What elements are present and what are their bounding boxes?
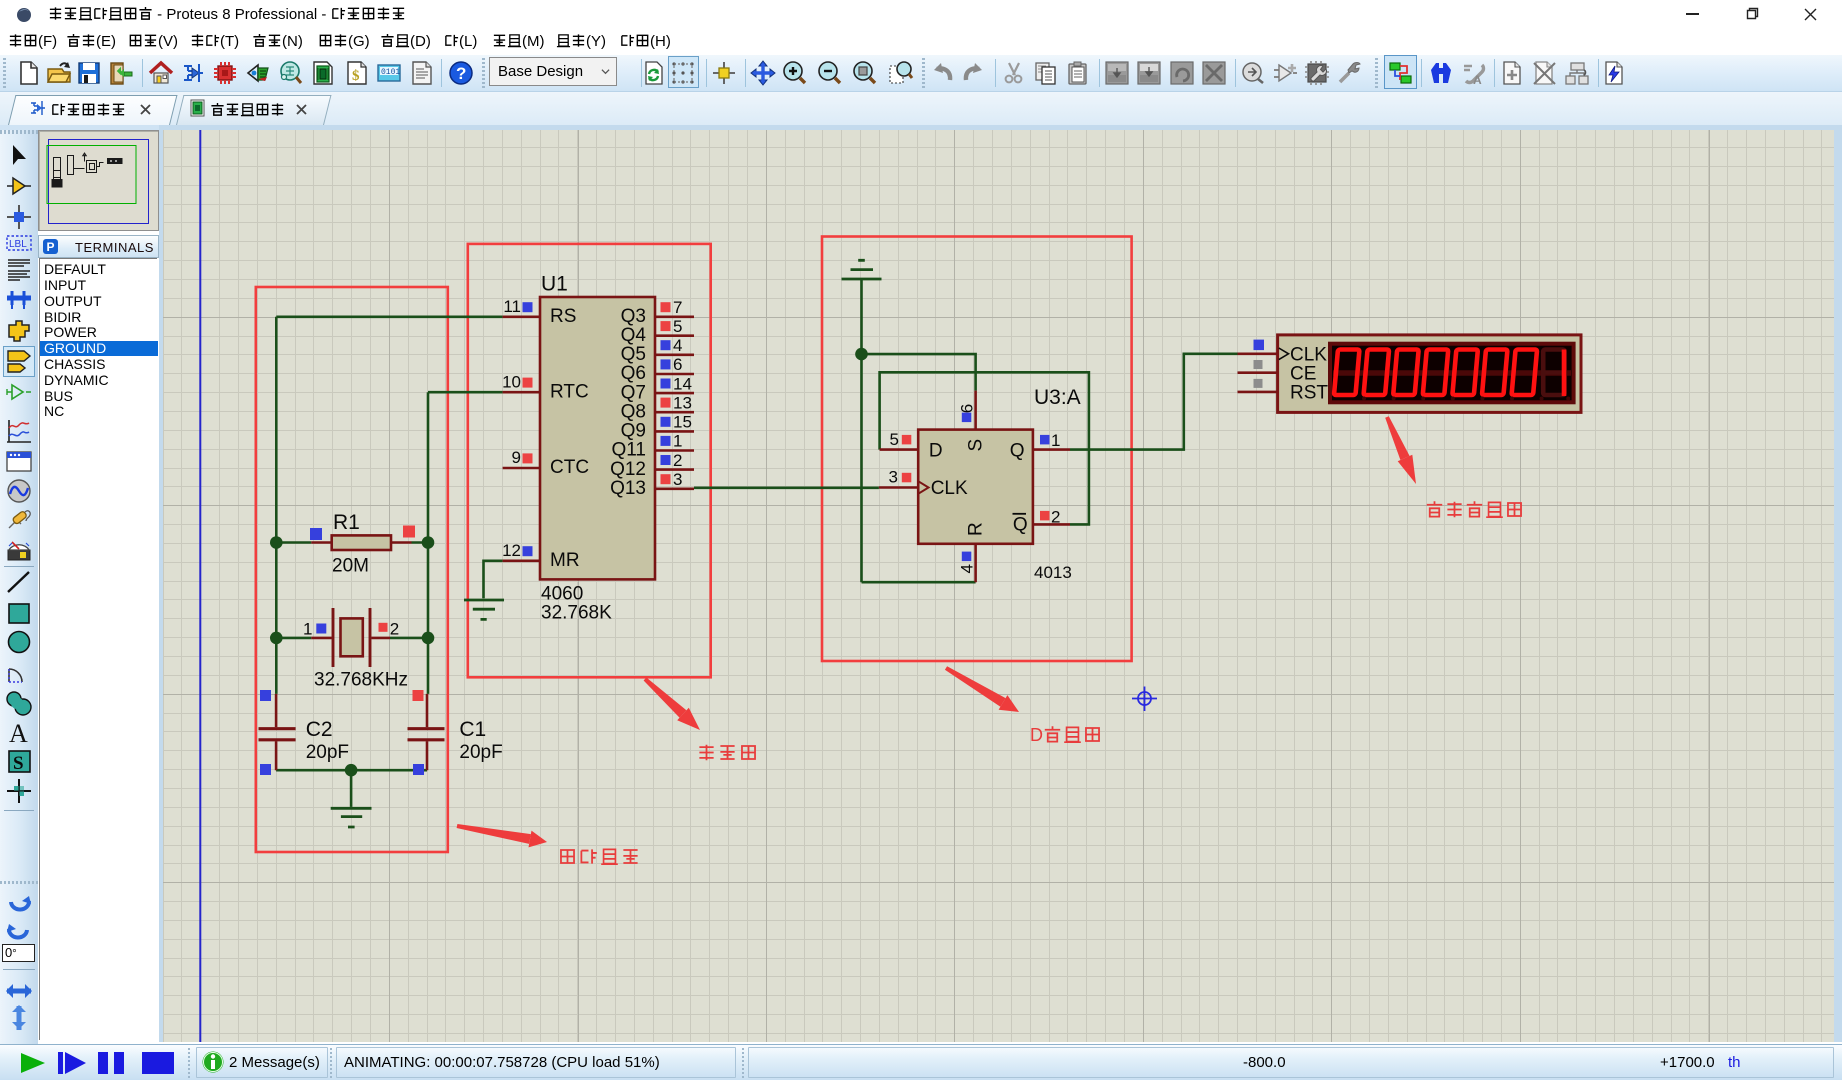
buses mode bbox=[5, 286, 33, 314]
svg-text:Q8: Q8 bbox=[621, 402, 646, 423]
svg-text:CE: CE bbox=[1290, 363, 1316, 384]
annotation arrow to crystal circuit bbox=[457, 824, 531, 844]
svg-text:4: 4 bbox=[958, 564, 977, 573]
capacitor C2 bbox=[259, 690, 350, 775]
terminals mode (selected) bbox=[5, 348, 33, 376]
svg-text:15: 15 bbox=[673, 413, 692, 432]
wire R1 left link bbox=[276, 541, 311, 544]
7-segment counter display bbox=[1238, 335, 1582, 413]
stop bbox=[142, 1052, 174, 1074]
wire ground stem G1 bbox=[350, 770, 353, 807]
svg-text:Q3: Q3 bbox=[621, 306, 646, 327]
voltage probe bbox=[5, 506, 33, 534]
crystal X1 32.768KHz bbox=[303, 608, 408, 691]
svg-text:Q5: Q5 bbox=[621, 344, 646, 365]
svg-text:32.768KHz: 32.768KHz bbox=[314, 670, 408, 691]
svg-text:13: 13 bbox=[673, 393, 692, 412]
generator mode bbox=[5, 478, 33, 506]
svg-text:3: 3 bbox=[673, 470, 682, 489]
annotation box: divider bbox=[468, 244, 711, 677]
wire right vertical (XTAL2 net) bbox=[427, 392, 430, 694]
wire crystal right link bbox=[390, 637, 428, 640]
wire D feedback loop bbox=[880, 372, 1089, 524]
ground G1 (crystal circuit) bbox=[331, 808, 372, 827]
svg-text:4060: 4060 bbox=[541, 584, 583, 605]
svg-text:1: 1 bbox=[303, 620, 312, 639]
svg-text:Q4: Q4 bbox=[621, 325, 647, 346]
label D触发器 bbox=[1030, 725, 1099, 745]
wire RS net bbox=[276, 315, 502, 318]
digit 0 x7 bbox=[1334, 350, 1537, 396]
junction node R1 left bbox=[270, 536, 283, 549]
svg-text:20pF: 20pF bbox=[459, 742, 502, 763]
svg-text:9: 9 bbox=[512, 448, 521, 467]
svg-text:A: A bbox=[1473, 73, 1482, 86]
wire crystal left link bbox=[276, 637, 311, 640]
svg-text:S: S bbox=[13, 753, 24, 774]
junction node crystal left bbox=[270, 632, 283, 645]
svg-text:C2: C2 bbox=[306, 718, 333, 741]
svg-text:2: 2 bbox=[390, 620, 399, 639]
subcircuit mode bbox=[5, 317, 33, 345]
svg-text:D: D bbox=[929, 441, 943, 462]
grid major bbox=[163, 130, 1834, 1072]
junction dot mode bbox=[5, 203, 33, 231]
ground G2 (U1 MR) bbox=[464, 600, 504, 619]
junction node cap common / ground bbox=[345, 764, 358, 777]
svg-text:2: 2 bbox=[673, 451, 682, 470]
svg-text:?: ? bbox=[456, 64, 466, 83]
2D line bbox=[5, 569, 33, 597]
view rect bbox=[47, 146, 136, 204]
2D symbol S bbox=[5, 748, 33, 776]
svg-text:3: 3 bbox=[889, 467, 898, 486]
svg-text:32.768K: 32.768K bbox=[541, 603, 612, 624]
2D box bbox=[5, 600, 33, 628]
svg-text:12: 12 bbox=[502, 541, 521, 560]
svg-text:Q11: Q11 bbox=[611, 440, 646, 461]
cursor crosshair bbox=[1132, 687, 1157, 712]
2D marker bbox=[5, 777, 33, 805]
svg-text:D: D bbox=[1030, 725, 1043, 745]
play bbox=[20, 1052, 46, 1074]
annotation box: crystal circuit bbox=[256, 287, 448, 852]
wire Q13 to CLK bbox=[694, 486, 879, 489]
pause bbox=[98, 1052, 126, 1074]
graph mode bbox=[5, 418, 33, 446]
svg-text:1: 1 bbox=[673, 432, 682, 451]
svg-text:MR: MR bbox=[550, 550, 580, 571]
label 晶振电路 bbox=[561, 849, 638, 864]
component mode bbox=[5, 173, 33, 201]
resistor R1 bbox=[310, 511, 415, 577]
svg-text:0101: 0101 bbox=[381, 68, 400, 77]
svg-text:Q12: Q12 bbox=[610, 459, 646, 480]
svg-text:S: S bbox=[966, 439, 987, 452]
svg-text:5: 5 bbox=[673, 317, 682, 336]
IC U1 4060 bbox=[502, 273, 694, 624]
svg-text:U1: U1 bbox=[541, 273, 568, 296]
mirror vertical bbox=[5, 1004, 33, 1032]
svg-text:Q13: Q13 bbox=[610, 478, 646, 499]
sheet edge (blue) bbox=[199, 130, 201, 1042]
virtual instruments bbox=[5, 536, 33, 564]
svg-text:4013: 4013 bbox=[1034, 563, 1072, 582]
svg-text:P: P bbox=[47, 240, 55, 254]
sheet rect bbox=[49, 140, 149, 224]
svg-text:Q9: Q9 bbox=[621, 421, 646, 442]
svg-text:U3:A: U3:A bbox=[1034, 386, 1081, 409]
svg-text:RS: RS bbox=[550, 306, 576, 327]
svg-text:11: 11 bbox=[503, 297, 521, 316]
svg-text:R1: R1 bbox=[333, 511, 360, 534]
wire MR to ground bbox=[484, 561, 503, 599]
rotate ccw bbox=[5, 916, 33, 944]
text script bbox=[5, 256, 33, 284]
svg-text:$: $ bbox=[352, 68, 360, 84]
wire bottom (cap common) bbox=[276, 769, 427, 772]
device pins mode bbox=[5, 379, 33, 407]
svg-text:C1: C1 bbox=[459, 718, 486, 741]
2D text A bbox=[5, 718, 33, 746]
svg-text:RST: RST bbox=[1290, 383, 1328, 404]
2D circle bbox=[5, 629, 33, 657]
wire R net bbox=[862, 581, 976, 584]
svg-text:6: 6 bbox=[673, 355, 682, 374]
IC U3:A 4013 D flip-flop bbox=[879, 386, 1081, 582]
junction node R1 right bbox=[422, 536, 435, 549]
mirror horizontal bbox=[5, 978, 33, 1006]
svg-text:CLK: CLK bbox=[931, 478, 968, 499]
step bbox=[58, 1052, 86, 1074]
svg-text:20pF: 20pF bbox=[306, 742, 349, 763]
svg-text:4: 4 bbox=[673, 336, 682, 355]
svg-text:CTC: CTC bbox=[550, 457, 589, 478]
svg-text:20M: 20M bbox=[332, 556, 369, 577]
wire left vertical (XTAL1 net) bbox=[275, 317, 278, 694]
svg-text:2: 2 bbox=[1051, 507, 1060, 526]
svg-text:Q7: Q7 bbox=[621, 382, 646, 403]
wire R1 right link bbox=[412, 541, 429, 544]
wire Q to display CLK bbox=[1070, 354, 1238, 450]
wire label LBL bbox=[5, 229, 33, 257]
svg-text:5: 5 bbox=[890, 430, 899, 449]
svg-text:6: 6 bbox=[958, 404, 977, 413]
annotation arrow to D flip-flop bbox=[945, 666, 1006, 706]
wire DFF ground vertical bbox=[860, 280, 863, 582]
capacitor C1 bbox=[408, 690, 503, 775]
annotation arrow to divider bbox=[644, 678, 687, 718]
svg-text:10: 10 bbox=[502, 372, 521, 391]
svg-text:Q6: Q6 bbox=[621, 363, 646, 384]
svg-text:Q: Q bbox=[1010, 441, 1025, 462]
annotation arrow to counter display bbox=[1385, 416, 1409, 460]
svg-text:R: R bbox=[966, 522, 987, 536]
wire RTC net bbox=[428, 391, 503, 394]
svg-text:LBL: LBL bbox=[9, 239, 27, 250]
svg-text:1: 1 bbox=[1051, 431, 1060, 450]
ground G3 (DFF, rotated 180) bbox=[842, 260, 882, 279]
svg-text:A: A bbox=[9, 719, 28, 746]
label 分频器 bbox=[699, 745, 755, 760]
label 计数计时器 bbox=[1427, 501, 1521, 517]
annotation box: D flip-flop bbox=[822, 237, 1132, 662]
svg-text:7: 7 bbox=[673, 298, 682, 317]
grid minor bbox=[163, 129, 1834, 1043]
svg-text:CLK: CLK bbox=[1290, 344, 1327, 365]
rotate cw bbox=[5, 888, 33, 916]
wire S net bbox=[862, 354, 976, 391]
2D arc bbox=[5, 659, 33, 687]
digit 8 ghost + bright 1 bbox=[1543, 350, 1565, 396]
tape recorder bbox=[5, 448, 33, 476]
svg-text:14: 14 bbox=[673, 374, 692, 393]
svg-text:RTC: RTC bbox=[550, 382, 589, 403]
2D closed path bbox=[5, 690, 33, 718]
junction node DFF S/ground bbox=[855, 348, 868, 361]
junction node crystal right bbox=[422, 632, 435, 645]
selection arrow bbox=[5, 143, 33, 171]
svg-text:Q: Q bbox=[1013, 515, 1028, 536]
